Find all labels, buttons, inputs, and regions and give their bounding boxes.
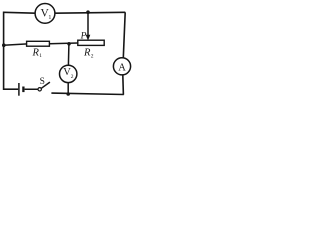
svg-text:1: 1 [48, 15, 51, 21]
svg-text:2: 2 [71, 74, 74, 80]
switch S lever [41, 82, 50, 88]
svg-text:2: 2 [91, 53, 94, 59]
wire: battery to switch [25, 88, 38, 90]
switch S pivot [38, 88, 41, 91]
svg-text:S: S [40, 77, 45, 87]
voltmeter V2 [59, 65, 76, 82]
rheostat R2 [78, 40, 104, 59]
wire: bottom rail [51, 93, 123, 94]
wire: V2 riser upper [67, 44, 70, 66]
node: junction dot B (V2 tap) [67, 42, 71, 46]
svg-text:A: A [118, 63, 126, 74]
wiper arrowhead P [86, 35, 91, 41]
wire: wiper stem [87, 12, 89, 36]
ammeter A [113, 58, 130, 75]
wire: right vertical upper [123, 12, 125, 58]
node: junction dot top (wiper to top rail) [86, 10, 90, 14]
node: junction dot left (middle wire to left rail) [2, 43, 6, 47]
wire: V2 riser lower [67, 83, 69, 95]
wire: top rail left segment [4, 11, 36, 14]
svg-text:P: P [80, 31, 87, 41]
wire: right vertical lower [122, 75, 125, 95]
svg-text:1: 1 [39, 53, 42, 59]
node: junction dot bottom (V2 to bottom rail) [66, 92, 70, 96]
wire: between R1 and R2 [49, 42, 77, 45]
wire: middle run from left rail to R1 [4, 44, 28, 45]
resistor R1 [27, 41, 50, 59]
wire: left vertical [3, 12, 5, 91]
svg-text:R: R [83, 47, 91, 58]
wire: battery row left [4, 88, 19, 90]
battery cell [19, 83, 24, 96]
wire: top rail right segment [55, 11, 126, 14]
voltmeter V1 [35, 4, 55, 24]
